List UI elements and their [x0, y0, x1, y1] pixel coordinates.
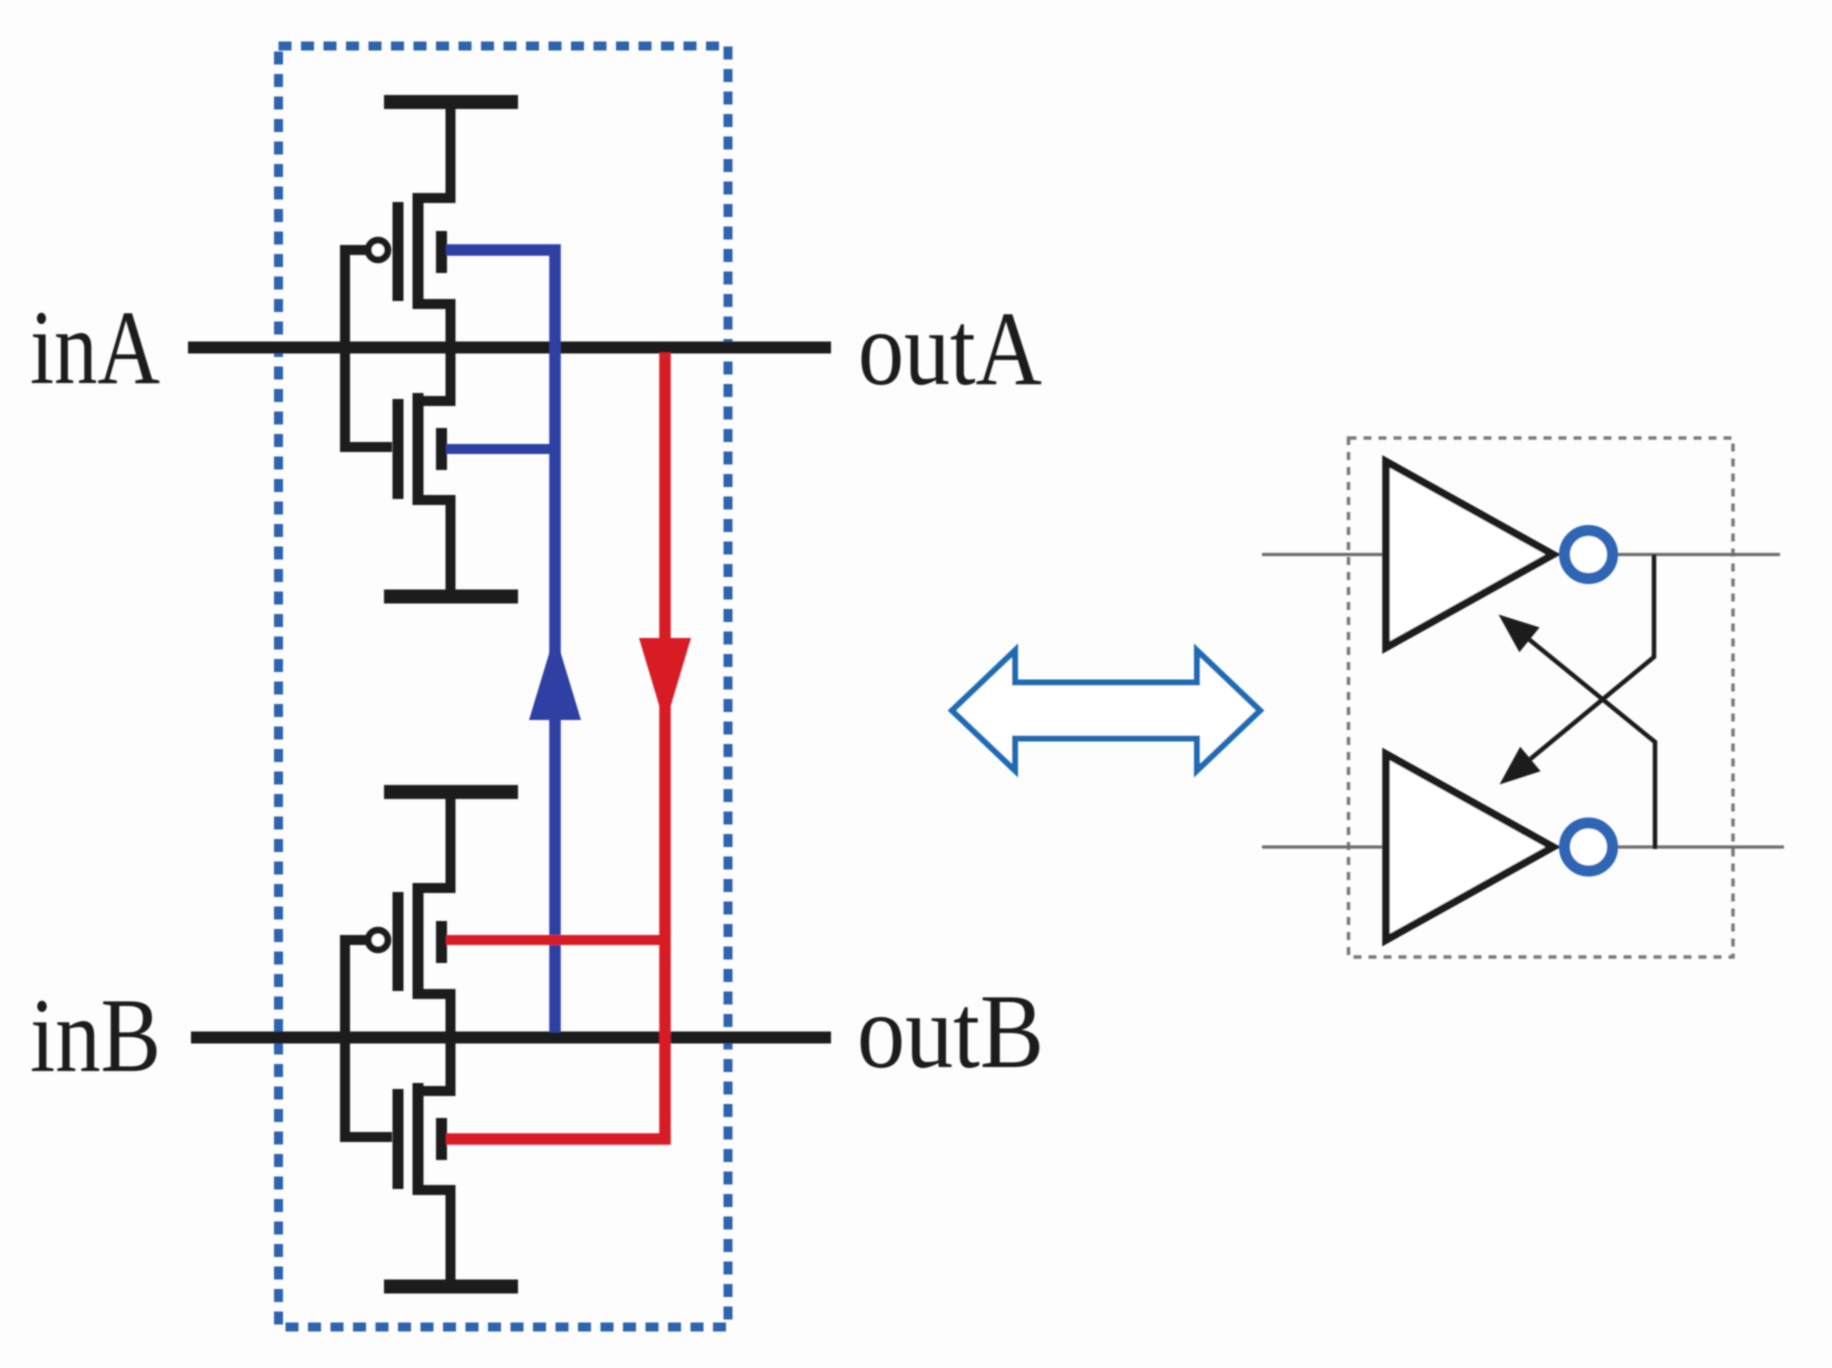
VDD rail (inverter B): [384, 785, 518, 799]
wire inA to outA: [188, 342, 831, 354]
arrowhead red (down): [639, 638, 691, 725]
GND rail (inverter A): [384, 590, 518, 604]
VDD rail (inverter A): [384, 95, 518, 109]
pmos Q1 (inverter A): [368, 96, 450, 353]
arrowhead blue (up): [529, 634, 581, 720]
wire inB gate riser: [345, 940, 392, 1137]
pmos Q3 (inverter B): [368, 786, 450, 1043]
svg-text:inA: inA: [30, 289, 160, 406]
wire through inverter U1 (gray): [1262, 553, 1780, 556]
wire inB to outB: [191, 1032, 831, 1044]
cell boundary (blue dashed box around both inverters): [279, 46, 729, 1327]
wire red feedback (outA to bodies of Q3,Q4): [446, 353, 665, 1140]
wire through inverter U2 (gray): [1262, 845, 1784, 848]
svg-text:outA: outA: [858, 290, 1042, 407]
equivalence double arrow: [952, 651, 1260, 771]
nmos Q2 (inverter A): [398, 343, 451, 601]
feedback wire U2 output to U1 (with arrowhead): [1499, 615, 1656, 850]
wire blue feedback (outB to bodies of Q1,Q2): [446, 250, 555, 1033]
symbol cell boundary (gray dotted box): [1349, 438, 1734, 957]
inverter U1 triangle: [1386, 462, 1553, 648]
svg-text:inB: inB: [30, 977, 161, 1094]
inverter U1 bubble: [1565, 531, 1613, 579]
svg-text:outB: outB: [857, 973, 1044, 1090]
GND rail (inverter B): [384, 1280, 518, 1294]
inverter U2 triangle: [1386, 754, 1553, 940]
nmos Q4 (inverter B): [398, 1033, 451, 1291]
inverter U2 bubble: [1565, 823, 1613, 871]
wire inA gate riser: [345, 250, 392, 447]
feedback wire U1 output to U2 (with arrowhead): [1500, 555, 1655, 785]
